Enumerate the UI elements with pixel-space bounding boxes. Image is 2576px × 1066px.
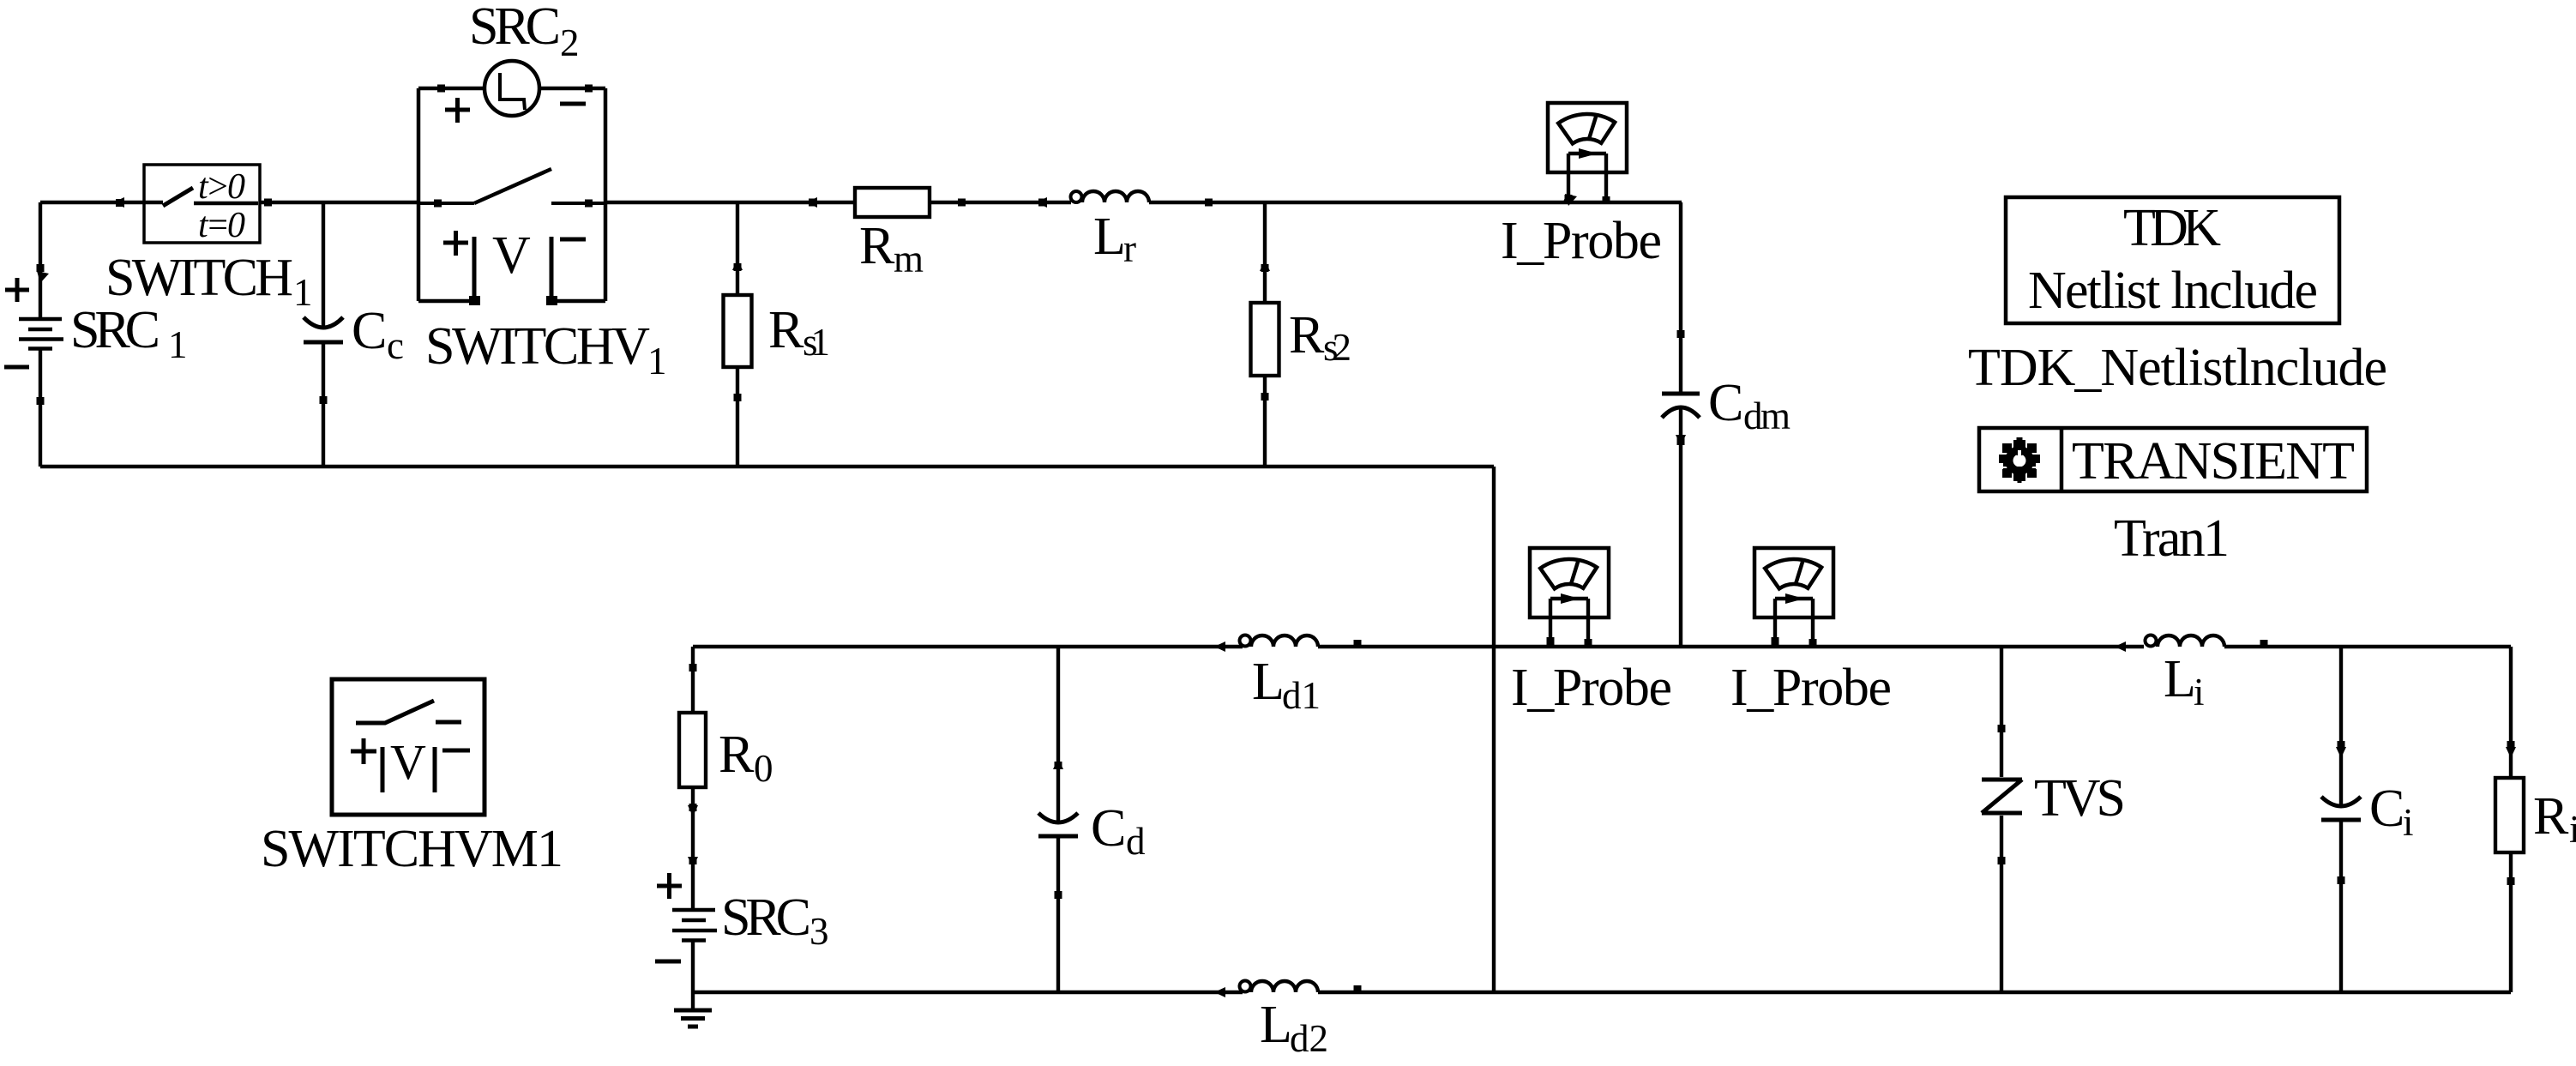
- current probe I_Probe lower-left: gauge fan: [1540, 559, 1597, 588]
- label Rs1: [768, 301, 830, 364]
- netlist include box TDK: [2006, 197, 2339, 323]
- battery SRC3 plus sign: [657, 873, 682, 899]
- label I_Probe lower-left: [1511, 659, 1672, 717]
- wire riser from upper bottom rail to lower bottom rail: [1492, 467, 1496, 992]
- svg-text:1: 1: [168, 323, 188, 366]
- svg-text:s1: s1: [803, 321, 830, 364]
- svg-text:TDK_Netlistlnclude: TDK_Netlistlnclude: [1968, 339, 2387, 397]
- resistor Rs2: [1251, 303, 1279, 376]
- wire lower top rail: [693, 645, 2511, 648]
- svg-text:I_Probe: I_Probe: [1730, 659, 1892, 717]
- label t>0 and t=0: [198, 167, 245, 245]
- svg-text:1: 1: [293, 271, 313, 314]
- resistor Ri: [2495, 778, 2524, 852]
- resistor R0: [679, 713, 706, 787]
- wire Cd branch: [1056, 647, 1060, 992]
- capacitor Cd: [1038, 813, 1078, 836]
- wire Rs2 branch: [1263, 202, 1267, 467]
- wire Ci branch: [2339, 647, 2343, 992]
- switch SWITCHV1 plus sign top: [445, 98, 470, 123]
- svg-text:1: 1: [647, 340, 667, 382]
- svg-text:d: d: [1126, 820, 1146, 863]
- label Ci: [2369, 780, 2414, 844]
- switch SWITCHV1 minus sign bottom: [560, 238, 586, 242]
- inductor Lr: [1071, 191, 1150, 202]
- current probe I_Probe top: box: [1548, 103, 1627, 172]
- switch SWITCH1 t=0 contact line: [194, 202, 258, 206]
- pin marker squares lower circuit: [689, 637, 2515, 993]
- wire upper bottom rail: [40, 465, 1494, 468]
- label Cd: [1091, 799, 1146, 863]
- current probe I_Probe lower-right: loop arrow: [1785, 593, 1804, 604]
- switch SWITCHV1 plus sign bottom: [443, 231, 468, 256]
- label Ld1: [1252, 653, 1321, 717]
- label SWITCH1: [105, 249, 313, 314]
- current probe I_Probe lower-right: legs and loop: [1775, 599, 1813, 647]
- inductor Li: [2146, 635, 2225, 647]
- capacitor Cdm: [1662, 394, 1700, 418]
- label Rm: [859, 217, 924, 280]
- svg-text:Netlist lnclude: Netlist lnclude: [2028, 262, 2318, 320]
- current probe I_Probe lower-right: gauge fan: [1765, 559, 1821, 588]
- label SWITCHV1: [425, 317, 667, 382]
- switch SWITCHV1 box outline: [418, 88, 605, 301]
- label Ri: [2533, 787, 2576, 851]
- svg-text:I_Probe: I_Probe: [1501, 212, 1662, 270]
- label Li: [2164, 650, 2205, 714]
- switch SWITCH1 arm: [163, 188, 193, 206]
- svg-text:C: C: [352, 302, 387, 360]
- svg-text:SRC: SRC: [70, 301, 160, 359]
- label R0: [719, 726, 773, 790]
- svg-text:0: 0: [754, 747, 773, 790]
- voltage source SRC2 circle: [485, 61, 539, 116]
- inductor Ld1: [1240, 635, 1319, 647]
- current probe I_Probe top: loop arrow: [1579, 148, 1598, 159]
- svg-text:d2: d2: [1290, 1017, 1328, 1060]
- svg-text:TRANSIENT: TRANSIENT: [2072, 432, 2355, 491]
- current probe I_Probe lower-left: box: [1530, 548, 1609, 617]
- switch SWITCHV1 voltmeter brackets: [474, 237, 551, 301]
- svg-text:I_Probe: I_Probe: [1511, 659, 1672, 717]
- svg-text:V: V: [390, 734, 426, 790]
- svg-text:r: r: [1123, 227, 1136, 270]
- label SRC2: [469, 0, 580, 64]
- switch SWITCHVM1 box: [332, 679, 485, 815]
- label Cc: [352, 302, 404, 367]
- svg-text:Tran1: Tran1: [2114, 509, 2230, 568]
- svg-text:C: C: [1708, 374, 1743, 432]
- switch SWITCHVM1 plus sign: [351, 738, 376, 764]
- svg-text:TVS: TVS: [2034, 769, 2126, 828]
- label Cdm: [1708, 374, 1791, 437]
- current probe I_Probe top: legs and loop: [1568, 154, 1606, 202]
- current probe I_Probe top: needle: [1589, 114, 1597, 139]
- wire lower right vertical (Ri branch): [2509, 647, 2513, 992]
- wire Rs1 branch: [736, 202, 739, 467]
- label Ld2: [1260, 996, 1328, 1060]
- svg-text:dm: dm: [1743, 394, 1791, 437]
- svg-text:SWITCHV: SWITCHV: [425, 317, 650, 376]
- svg-text:SRC: SRC: [469, 0, 561, 56]
- current probe I_Probe lower-left: needle: [1571, 559, 1579, 584]
- svg-text:R: R: [768, 301, 804, 359]
- label SWITCHVM1: [261, 820, 563, 878]
- TVS diode symbol: [1982, 780, 2022, 813]
- wire Cdm branch vertical: [1679, 202, 1682, 647]
- battery SRC1 plus sign: [5, 278, 29, 302]
- svg-text:C: C: [1091, 799, 1126, 858]
- label TRANSIENT: [2072, 432, 2355, 491]
- wire TVS branch: [2000, 647, 2003, 992]
- svg-text:i: i: [2569, 808, 2576, 851]
- switch SWITCH1 box: [144, 165, 260, 243]
- svg-text:R: R: [719, 726, 755, 784]
- label I_Probe top: [1501, 212, 1662, 270]
- wire top main rail: [40, 201, 1682, 204]
- svg-text:3: 3: [810, 910, 829, 953]
- switch SWITCHVM1 minus near arm: [436, 720, 461, 725]
- svg-text:R: R: [2533, 787, 2569, 846]
- label SRC3: [721, 888, 829, 953]
- ground: [674, 1010, 712, 1027]
- current probe I_Probe lower-left: legs and loop: [1550, 599, 1588, 647]
- svg-text:C: C: [2369, 780, 2404, 838]
- current probe I_Probe lower-left: loop arrow: [1561, 593, 1580, 604]
- svg-text:SWITCHVM1: SWITCHVM1: [261, 820, 563, 878]
- label TDK: [2123, 199, 2221, 257]
- battery SRC3 minus sign: [655, 960, 681, 964]
- svg-text:d1: d1: [1282, 674, 1321, 717]
- pin marker arrows: [37, 190, 2516, 997]
- svg-text:t=0: t=0: [198, 206, 245, 245]
- label Netlist lnclude: [2028, 262, 2318, 320]
- gear icon in transient box: [1995, 437, 2043, 483]
- svg-text:m: m: [894, 238, 924, 280]
- label TDK_Netlistlnclude: [1968, 339, 2387, 397]
- resistor Rm: [855, 188, 930, 217]
- capacitor Cc: [304, 317, 343, 342]
- label V in SWITCHV1: [492, 226, 531, 285]
- svg-text:s2: s2: [1323, 326, 1351, 369]
- resistor Rs1: [724, 295, 752, 367]
- wire Cc branch: [322, 202, 325, 467]
- svg-text:SRC: SRC: [721, 888, 811, 947]
- svg-text:2: 2: [560, 21, 580, 64]
- svg-text:L: L: [1093, 208, 1126, 266]
- switch SWITCHVM1 arm and contact: [356, 701, 434, 723]
- label Rs2: [1289, 306, 1351, 369]
- svg-text:L: L: [2164, 650, 2196, 708]
- switch SWITCHV1 contacts and arm: [418, 169, 605, 203]
- switch SWITCHVM1 abs bars: [382, 747, 435, 792]
- inductor Ld2: [1240, 981, 1319, 993]
- switch SWITCHVM1 minus sign right: [442, 749, 470, 753]
- svg-text:c: c: [387, 324, 404, 367]
- battery SRC3: [672, 910, 717, 941]
- current probe I_Probe lower-right: needle: [1796, 559, 1803, 584]
- label SRC1: [70, 301, 188, 366]
- svg-text:SWITCH: SWITCH: [105, 249, 293, 307]
- label Lr: [1093, 208, 1136, 270]
- svg-text:L: L: [1252, 653, 1285, 711]
- svg-text:TDK: TDK: [2123, 199, 2221, 257]
- bracket feet SWITCHV1: [469, 296, 557, 305]
- svg-text:V: V: [492, 226, 531, 285]
- wire lower left vertical (R0/SRC3 branch): [691, 647, 695, 1009]
- voltage source SRC2 clock hands: [500, 73, 525, 110]
- current probe I_Probe top: gauge fan: [1558, 114, 1615, 143]
- svg-text:i: i: [2194, 671, 2205, 714]
- label V in SWITCHVM1: [390, 734, 426, 790]
- current probe I_Probe lower-right: box: [1754, 548, 1833, 617]
- wire left vertical (SRC1 branch): [39, 202, 42, 467]
- svg-text:t>0: t>0: [198, 167, 245, 207]
- svg-text:L: L: [1260, 996, 1292, 1054]
- transient controller box: [1979, 428, 2367, 491]
- svg-text:R: R: [1289, 306, 1325, 364]
- label Tran1: [2114, 509, 2230, 568]
- svg-text:i: i: [2403, 801, 2414, 844]
- battery SRC1: [19, 319, 63, 349]
- switch SWITCHV1 minus sign top: [560, 102, 586, 106]
- svg-text:R: R: [859, 217, 895, 275]
- label TVS: [2034, 769, 2126, 828]
- pin marker squares upper circuit: [37, 85, 1685, 446]
- wire lower bottom rail: [693, 991, 2511, 994]
- battery SRC1 minus sign: [4, 365, 29, 370]
- capacitor Ci: [2321, 797, 2361, 820]
- label I_Probe lower-right: [1730, 659, 1892, 717]
